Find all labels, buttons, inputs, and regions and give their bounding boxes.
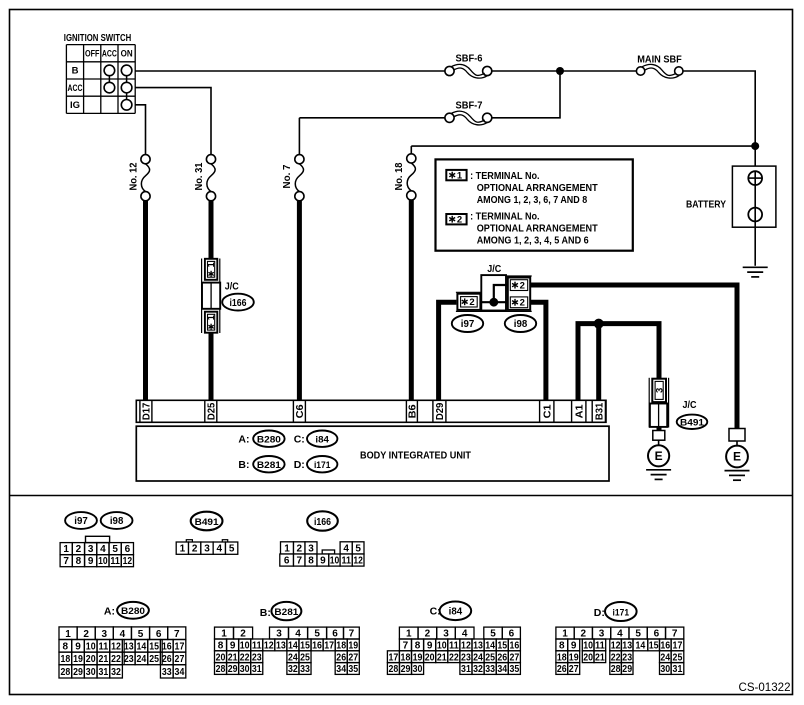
junction node inside J/C: [489, 298, 498, 307]
svg-text:28: 28: [611, 664, 621, 675]
svg-text:28: 28: [60, 667, 70, 678]
connector A: B280 pinout: [59, 627, 186, 678]
svg-text:15: 15: [649, 641, 659, 652]
connector i166 ellipse: [222, 294, 254, 311]
svg-text:3: 3: [443, 629, 449, 640]
svg-text:5: 5: [355, 543, 361, 554]
svg-text:33: 33: [300, 664, 310, 675]
svg-text:32: 32: [288, 664, 298, 675]
svg-text:5: 5: [314, 629, 320, 640]
svg-text:12: 12: [611, 641, 621, 652]
svg-text:23: 23: [461, 652, 471, 663]
svg-text:12: 12: [461, 641, 471, 652]
svg-text:21: 21: [595, 652, 605, 663]
svg-text:16: 16: [162, 641, 172, 652]
svg-text:6: 6: [125, 544, 131, 555]
note *1 symbol box: [446, 170, 466, 180]
svg-text:: TERMINAL No.: : TERMINAL No.: [470, 170, 540, 182]
svg-text:17: 17: [175, 641, 185, 652]
svg-text:D25: D25: [205, 403, 217, 421]
svg-text:C:: C:: [294, 434, 305, 446]
svg-text:2: 2: [240, 629, 246, 640]
svg-text:23: 23: [124, 654, 134, 665]
svg-text:10: 10: [98, 556, 108, 567]
svg-text:i171: i171: [314, 460, 331, 471]
svg-text:32: 32: [473, 664, 483, 675]
svg-text:22: 22: [611, 652, 621, 663]
wire IG row to No.12: [135, 105, 145, 155]
wire SBF-6 to junction and MAIN SBF: [492, 70, 637, 72]
ground symbol E left: [646, 470, 671, 480]
svg-text:5: 5: [635, 629, 641, 640]
svg-text:12: 12: [264, 641, 274, 652]
svg-text:B491: B491: [680, 417, 705, 428]
connector B491 label bottom: [191, 512, 223, 531]
svg-text:ON: ON: [121, 49, 133, 60]
J/C i166 middle box: [202, 283, 220, 309]
fuse No. 31: [206, 155, 215, 201]
svg-text:E: E: [733, 450, 741, 464]
ignition switch contacts: [104, 65, 132, 110]
fuse No. 18: [407, 154, 416, 200]
svg-text:D:: D:: [294, 459, 305, 471]
svg-text:2: 2: [520, 298, 525, 309]
svg-text:29: 29: [401, 664, 411, 675]
svg-text:14: 14: [288, 641, 298, 652]
svg-text:22: 22: [240, 652, 250, 663]
svg-text:12: 12: [123, 556, 133, 567]
connector i97/i98 pinout: [60, 536, 133, 567]
svg-text:i84: i84: [315, 435, 329, 446]
battery positive terminal: [748, 171, 762, 185]
junction node battery/No.18: [751, 142, 759, 150]
connector B: B281 pinout: [215, 627, 360, 675]
wire inside J/C middle box: [481, 301, 508, 303]
svg-text:35: 35: [509, 664, 519, 675]
ignition switch contact links: [109, 70, 126, 104]
svg-text:AMONG 1, 2, 3, 4, 5 AND 6: AMONG 1, 2, 3, 4, 5 AND 6: [477, 235, 589, 247]
svg-text:23: 23: [252, 652, 262, 663]
svg-text:7: 7: [349, 629, 355, 640]
svg-text:AMONG 1, 2, 3, 6, 7 AND 8: AMONG 1, 2, 3, 6, 7 AND 8: [477, 194, 588, 206]
svg-text:D:: D:: [594, 607, 605, 619]
svg-text:i97: i97: [461, 319, 475, 330]
wire J/C B491 lower stub: [657, 426, 662, 432]
svg-text:9: 9: [88, 556, 94, 567]
svg-text:26: 26: [162, 654, 172, 665]
battery internal wire: [754, 171, 756, 265]
svg-text:11: 11: [110, 556, 120, 567]
J/C i166 upper *1 box: [205, 259, 217, 280]
svg-text:33: 33: [162, 667, 172, 678]
svg-text:D17: D17: [141, 403, 153, 421]
svg-text:4: 4: [217, 544, 223, 555]
svg-text:27: 27: [348, 652, 358, 663]
svg-text:17: 17: [673, 641, 683, 652]
svg-text:31: 31: [461, 664, 471, 675]
wire J/C i166 to D25: [209, 332, 214, 402]
connector i97 label bottom: [65, 512, 97, 529]
svg-text:28: 28: [216, 664, 226, 675]
svg-text:15: 15: [300, 641, 310, 652]
svg-text:13: 13: [124, 641, 134, 652]
svg-text:3: 3: [276, 629, 282, 640]
svg-text:OPTIONAL ARRANGEMENT: OPTIONAL ARRANGEMENT: [477, 182, 599, 194]
svg-text:34: 34: [497, 664, 507, 675]
svg-text:28: 28: [389, 664, 399, 675]
junction node B31/A1: [594, 319, 604, 329]
wire to ground E right: [736, 441, 738, 446]
svg-text:26: 26: [497, 652, 507, 663]
wire SBF-7 to junction riser: [492, 71, 561, 118]
svg-text:11: 11: [449, 641, 459, 652]
svg-text:10: 10: [437, 641, 447, 652]
svg-text:1: 1: [180, 544, 186, 555]
svg-text:27: 27: [569, 664, 579, 675]
svg-text:22: 22: [111, 654, 121, 665]
svg-text:1: 1: [221, 629, 227, 640]
svg-text:4: 4: [295, 629, 301, 640]
svg-text:29: 29: [622, 664, 632, 675]
svg-text:1: 1: [206, 262, 216, 267]
svg-text:J/C: J/C: [225, 282, 239, 293]
J/C i97/i98 middle box: [481, 275, 506, 310]
svg-text:7: 7: [63, 556, 69, 567]
svg-text:B:: B:: [238, 459, 249, 471]
svg-text:19: 19: [413, 652, 423, 663]
J/C i166 lower *1 box: [205, 312, 217, 333]
wire No.18 riser: [410, 146, 412, 154]
svg-text:A:: A:: [238, 434, 249, 446]
svg-text:2: 2: [520, 281, 525, 292]
svg-text:13: 13: [473, 641, 483, 652]
svg-text:7: 7: [174, 629, 180, 640]
svg-text:i98: i98: [110, 516, 124, 527]
junction node SBF-6/SBF-7: [556, 67, 564, 75]
wire B31 riser: [596, 324, 601, 401]
svg-text:6: 6: [332, 629, 338, 640]
svg-text:2: 2: [425, 629, 431, 640]
svg-text:18: 18: [401, 652, 411, 663]
svg-text:3: 3: [88, 544, 94, 555]
ground symbol E right: [725, 471, 750, 481]
svg-text:17: 17: [324, 641, 334, 652]
J/C i97/i98 rails: [456, 291, 482, 293]
fuse No. 12: [141, 155, 150, 201]
svg-text:2: 2: [76, 544, 82, 555]
svg-text:1: 1: [562, 629, 568, 640]
svg-text:3: 3: [102, 629, 108, 640]
svg-text:33: 33: [485, 664, 495, 675]
svg-text:3: 3: [655, 388, 666, 393]
svg-text:17: 17: [389, 652, 399, 663]
wire No.31 to J/C i166: [209, 201, 214, 260]
svg-text:IG: IG: [70, 100, 80, 111]
svg-text:25: 25: [485, 652, 495, 663]
svg-text:25: 25: [149, 654, 159, 665]
svg-text:29: 29: [73, 667, 83, 678]
svg-text:6: 6: [284, 556, 290, 567]
svg-text:10: 10: [240, 641, 250, 652]
svg-text:1: 1: [63, 544, 69, 555]
svg-text:7: 7: [672, 629, 678, 640]
connector B491 ellipse: [677, 415, 708, 429]
section separator line: [10, 495, 793, 497]
fuse SBF-6: [445, 64, 492, 78]
svg-text:27: 27: [509, 652, 519, 663]
svg-text:25: 25: [300, 652, 310, 663]
svg-text:SBF-7: SBF-7: [456, 100, 483, 111]
svg-text:35: 35: [348, 664, 358, 675]
ground connector box right: [729, 429, 745, 442]
svg-text:5: 5: [112, 544, 118, 555]
svg-text:18: 18: [557, 652, 567, 663]
svg-text:9: 9: [427, 641, 433, 652]
svg-text:19: 19: [73, 654, 83, 665]
svg-text:9: 9: [320, 556, 326, 567]
svg-text:8: 8: [415, 641, 421, 652]
battery negative terminal: [748, 208, 762, 222]
svg-text:26: 26: [336, 652, 346, 663]
svg-text:34: 34: [336, 664, 346, 675]
svg-text:B280: B280: [121, 606, 145, 617]
svg-text:30: 30: [413, 664, 423, 675]
J/C B491 middle box: [650, 404, 667, 427]
J/C B491 terminal 3 box: [652, 379, 666, 402]
svg-text:11: 11: [595, 641, 605, 652]
connector D: i171 pinout: [556, 627, 684, 675]
svg-text:20: 20: [86, 654, 96, 665]
svg-text:24: 24: [137, 654, 147, 665]
svg-text:2: 2: [581, 629, 587, 640]
wire to ground E left: [658, 440, 660, 445]
svg-text:5: 5: [138, 629, 144, 640]
svg-text:1: 1: [65, 629, 71, 640]
svg-text:: TERMINAL No.: : TERMINAL No.: [470, 211, 540, 223]
svg-text:2: 2: [469, 297, 474, 308]
svg-text:21: 21: [437, 652, 447, 663]
svg-text:29: 29: [228, 664, 238, 675]
connector C: i84 pinout: [387, 627, 520, 675]
svg-text:18: 18: [60, 654, 70, 665]
svg-text:34: 34: [175, 667, 185, 678]
svg-text:2: 2: [457, 215, 462, 226]
wire B row to SBF-6: [135, 70, 445, 72]
svg-text:3: 3: [204, 544, 210, 555]
svg-text:i97: i97: [74, 516, 88, 527]
battery box: [732, 166, 776, 227]
svg-text:19: 19: [348, 641, 358, 652]
svg-text:B280: B280: [257, 435, 281, 446]
svg-text:20: 20: [425, 652, 435, 663]
svg-text:1: 1: [457, 171, 463, 182]
svg-text:32: 32: [111, 667, 121, 678]
svg-text:12: 12: [111, 641, 121, 652]
svg-text:26: 26: [557, 664, 567, 675]
svg-text:22: 22: [449, 652, 459, 663]
connector i98 ellipse: [505, 315, 536, 332]
wire i98 to C1: [530, 302, 546, 401]
svg-text:4: 4: [120, 629, 126, 640]
svg-text:30: 30: [86, 667, 96, 678]
fuse No. 7: [295, 155, 304, 201]
svg-text:10: 10: [583, 641, 593, 652]
svg-text:ACC: ACC: [68, 83, 83, 94]
svg-text:10: 10: [330, 556, 340, 567]
svg-text:21: 21: [98, 654, 108, 665]
svg-text:1: 1: [284, 543, 290, 554]
svg-text:5: 5: [229, 544, 235, 555]
svg-text:11: 11: [98, 641, 108, 652]
svg-text:10: 10: [86, 641, 96, 652]
svg-text:15: 15: [149, 641, 159, 652]
svg-text:i166: i166: [314, 517, 331, 528]
svg-text:OPTIONAL ARRANGEMENT: OPTIONAL ARRANGEMENT: [477, 223, 599, 235]
svg-text:C6: C6: [294, 404, 306, 418]
svg-text:i171: i171: [613, 607, 630, 618]
svg-text:6: 6: [509, 629, 515, 640]
ground connector box left: [653, 431, 665, 441]
connector i97 ellipse: [452, 315, 483, 332]
svg-text:1: 1: [206, 315, 216, 320]
J/C i166 rails: [201, 259, 203, 334]
svg-text:4: 4: [617, 629, 623, 640]
wire No.18 horizontal from battery line: [411, 145, 755, 147]
svg-text:30: 30: [660, 664, 670, 675]
svg-text:31: 31: [98, 667, 108, 678]
wire D29 to J/C i97: [439, 302, 457, 401]
svg-text:4: 4: [462, 629, 468, 640]
svg-text:B491: B491: [195, 517, 220, 528]
svg-text:6: 6: [654, 629, 660, 640]
svg-text:i98: i98: [514, 319, 528, 330]
svg-text:IGNITION SWITCH: IGNITION SWITCH: [64, 32, 132, 44]
svg-text:4: 4: [100, 544, 106, 555]
svg-text:9: 9: [230, 641, 236, 652]
svg-text:15: 15: [497, 641, 507, 652]
svg-text:J/C: J/C: [487, 264, 501, 275]
svg-text:3: 3: [599, 629, 605, 640]
svg-text:14: 14: [485, 641, 495, 652]
svg-text:B: B: [72, 66, 79, 77]
svg-text:13: 13: [276, 641, 286, 652]
wire SBF-7 line left: [299, 117, 445, 119]
svg-text:2: 2: [83, 629, 89, 640]
svg-text:8: 8: [63, 641, 69, 652]
svg-text:B281: B281: [274, 607, 299, 618]
svg-text:16: 16: [660, 641, 670, 652]
svg-text:21: 21: [228, 652, 238, 663]
svg-text:23: 23: [622, 652, 632, 663]
body integrated unit connector strip: [136, 400, 606, 422]
svg-text:J/C: J/C: [683, 400, 697, 411]
ground E right: [726, 446, 748, 468]
svg-text:16: 16: [509, 641, 519, 652]
note box: [436, 159, 633, 250]
svg-text:3: 3: [308, 543, 314, 554]
connector i98 label bottom: [101, 512, 133, 529]
svg-text:30: 30: [240, 664, 250, 675]
svg-text:9: 9: [75, 641, 81, 652]
svg-text:BATTERY: BATTERY: [686, 200, 726, 211]
wire No.7 to C6: [297, 201, 302, 401]
svg-text:2: 2: [296, 543, 302, 554]
svg-text:SBF-6: SBF-6: [456, 53, 483, 64]
connector i166 pinout: [280, 542, 364, 567]
wire No.12 to D17: [143, 201, 148, 401]
svg-text:13: 13: [622, 641, 632, 652]
body integrated unit box: [136, 426, 609, 481]
svg-text:20: 20: [583, 652, 593, 663]
wire i98 to ground E right: [530, 285, 737, 429]
svg-text:18: 18: [336, 641, 346, 652]
svg-text:24: 24: [660, 652, 670, 663]
svg-text:ACC: ACC: [102, 49, 117, 60]
svg-text:24: 24: [288, 652, 298, 663]
connector B491 pinout: [176, 540, 238, 555]
svg-text:8: 8: [559, 641, 565, 652]
note *2 symbol box: [446, 214, 466, 224]
svg-text:5: 5: [490, 629, 496, 640]
svg-text:9: 9: [571, 641, 577, 652]
battery positive cross line: [748, 177, 762, 179]
svg-text:16: 16: [312, 641, 322, 652]
J/C i97 *2 box: [457, 294, 480, 310]
svg-text:7: 7: [403, 641, 409, 652]
svg-text:8: 8: [308, 556, 314, 567]
svg-text:B:: B:: [260, 607, 271, 619]
svg-text:A1: A1: [573, 404, 585, 418]
svg-text:B6: B6: [407, 404, 419, 418]
svg-text:A:: A:: [104, 605, 115, 617]
svg-text:31: 31: [252, 664, 262, 675]
svg-text:19: 19: [569, 652, 579, 663]
svg-text:8: 8: [76, 556, 82, 567]
svg-text:11: 11: [252, 641, 262, 652]
svg-text:i84: i84: [449, 607, 463, 618]
svg-text:No. 12: No. 12: [128, 162, 139, 190]
svg-text:B31: B31: [593, 403, 605, 421]
svg-text:25: 25: [673, 652, 683, 663]
svg-text:24: 24: [473, 652, 483, 663]
svg-text:20: 20: [216, 652, 226, 663]
svg-text:CS-01322: CS-01322: [739, 680, 791, 694]
J/C B491 rails: [648, 378, 650, 428]
svg-text:MAIN SBF: MAIN SBF: [637, 54, 682, 65]
fuse MAIN SBF: [636, 64, 683, 78]
svg-text:2: 2: [192, 544, 198, 555]
svg-text:8: 8: [218, 641, 224, 652]
wire A1 to J/C B491: [578, 324, 659, 401]
battery ground: [743, 267, 768, 277]
svg-text:B281: B281: [257, 460, 282, 471]
fuse SBF-7: [445, 111, 492, 125]
svg-text:12: 12: [353, 556, 363, 567]
connector i166 label bottom: [307, 511, 338, 530]
svg-text:1: 1: [406, 629, 412, 640]
svg-text:No. 18: No. 18: [394, 162, 405, 190]
svg-text:6: 6: [156, 629, 162, 640]
svg-text:14: 14: [636, 641, 646, 652]
svg-text:D29: D29: [434, 403, 446, 421]
svg-text:BODY INTEGRATED UNIT: BODY INTEGRATED UNIT: [360, 449, 472, 461]
wire No.18 to B6: [409, 200, 414, 401]
wire ACC row to No.31: [135, 88, 211, 155]
svg-text:No. 31: No. 31: [194, 162, 205, 190]
svg-text:i166: i166: [230, 298, 247, 309]
svg-text:No. 7: No. 7: [282, 164, 293, 188]
svg-text:4: 4: [343, 543, 349, 554]
